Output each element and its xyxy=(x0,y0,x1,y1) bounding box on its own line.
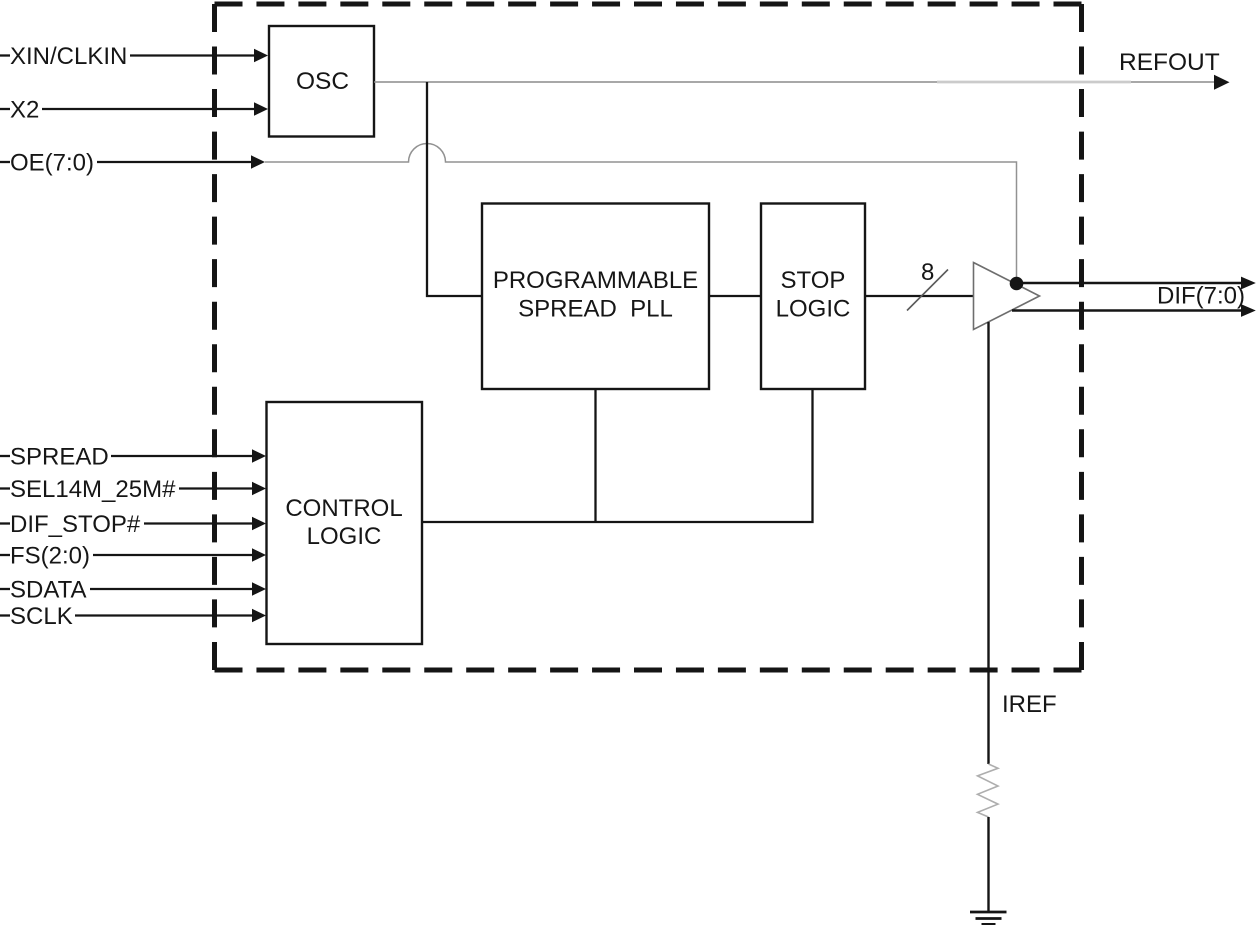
svg-text:SEL14M_25M#: SEL14M_25M# xyxy=(10,476,176,503)
arrowhead into OSC pin X2 xyxy=(254,102,268,115)
wire DIF_STOP# to CONTROL LOGIC xyxy=(144,522,254,524)
wire XIN/CLKIN to OSC xyxy=(130,54,256,56)
wire DIF true output xyxy=(1017,282,1244,285)
svg-text:OSC: OSC xyxy=(296,68,349,95)
svg-text:LOGIC: LOGIC xyxy=(307,523,382,550)
output buffer triangle xyxy=(974,263,1040,330)
svg-text:PROGRAMMABLE: PROGRAMMABLE xyxy=(493,267,698,294)
arrowhead SPREAD xyxy=(252,449,266,462)
wire IREF from buffer down xyxy=(987,322,989,764)
arrowhead SCLK xyxy=(252,609,266,622)
arrowhead SDATA xyxy=(252,582,266,595)
wire SEL14M_25M# lead xyxy=(0,487,10,489)
wire branch up to PLL bottom xyxy=(594,390,596,522)
wire X2 lead xyxy=(0,108,10,110)
arrowhead DIF_STOP# xyxy=(252,517,266,530)
wire PLL to STOP LOGIC xyxy=(709,295,761,297)
wire SPREAD to CONTROL LOGIC xyxy=(111,455,254,457)
wire OE internal gray with hop over clock line xyxy=(265,144,1017,280)
svg-text:IREF: IREF xyxy=(1002,691,1057,718)
wire SDATA lead xyxy=(0,588,10,590)
arrowhead FS(2:0) xyxy=(252,548,266,561)
wire SCLK to CONTROL LOGIC xyxy=(75,614,254,616)
bus width slash xyxy=(907,270,948,311)
svg-text:SDATA: SDATA xyxy=(10,577,86,604)
wire SEL14M_25M# to CONTROL LOGIC xyxy=(179,487,254,489)
wire OE(7:0) lead xyxy=(0,161,10,163)
arrowhead REFOUT xyxy=(1214,75,1230,90)
wire FS(2:0) lead xyxy=(0,554,10,556)
svg-text:SPREAD: SPREAD xyxy=(10,444,109,471)
wire lighter overlay segment xyxy=(937,81,1131,84)
junction dot OE/DIF xyxy=(1010,277,1024,291)
wire DIF_STOP# lead xyxy=(0,522,10,524)
arrowhead DIF true xyxy=(1241,277,1256,290)
wire SDATA to CONTROL LOGIC xyxy=(90,588,254,590)
STOP LOGIC box xyxy=(761,204,865,390)
arrowhead into OSC pin XIN xyxy=(254,49,268,62)
wire SPREAD lead xyxy=(0,455,10,457)
wire OSC output to REFOUT (gray) xyxy=(374,81,1215,83)
wire CONTROL LOGIC to PLL and STOP LOGIC bottoms xyxy=(422,390,813,522)
svg-text:LOGIC: LOGIC xyxy=(776,296,851,323)
chip boundary (dashed) xyxy=(215,4,1082,670)
svg-text:8: 8 xyxy=(921,259,934,286)
svg-text:REFOUT: REFOUT xyxy=(1119,49,1220,76)
wire SCLK lead xyxy=(0,614,10,616)
svg-text:SPREAD PLL: SPREAD PLL xyxy=(518,296,673,323)
wire X2 to OSC xyxy=(42,108,256,110)
PLL box PROGRAMMABLE SPREAD PLL xyxy=(482,204,709,390)
arrowhead DIF complement xyxy=(1241,304,1256,317)
resistor IREF zigzag xyxy=(978,764,999,817)
wire OE(7:0) to boundary xyxy=(97,161,253,163)
svg-text:FS(2:0): FS(2:0) xyxy=(10,543,90,570)
wire resistor to ground xyxy=(987,817,989,912)
wire DIF complement output xyxy=(1012,309,1243,312)
svg-text:SCLK: SCLK xyxy=(10,603,73,630)
svg-text:OE(7:0): OE(7:0) xyxy=(10,150,94,177)
svg-text:XIN/CLKIN: XIN/CLKIN xyxy=(10,43,127,70)
ground symbol xyxy=(970,911,1007,914)
arrowhead SEL14M_25M# xyxy=(252,482,266,495)
svg-text:STOP: STOP xyxy=(781,267,846,294)
svg-text:X2: X2 xyxy=(10,97,39,124)
svg-text:DIF_STOP#: DIF_STOP# xyxy=(10,511,141,538)
wire XIN/CLKIN lead xyxy=(0,54,10,56)
wire clock drop from OSC net to PLL xyxy=(427,82,481,296)
wire FS(2:0) to CONTROL LOGIC xyxy=(93,554,254,556)
arrowhead OE at boundary xyxy=(251,155,265,168)
control logic box CONTROL LOGIC xyxy=(267,402,423,644)
svg-text:CONTROL: CONTROL xyxy=(285,495,402,522)
oscillator box OSC xyxy=(269,26,374,137)
wire STOP LOGIC to output buffer (bus) xyxy=(865,295,973,297)
svg-text:DIF(7:0): DIF(7:0) xyxy=(1157,283,1245,310)
